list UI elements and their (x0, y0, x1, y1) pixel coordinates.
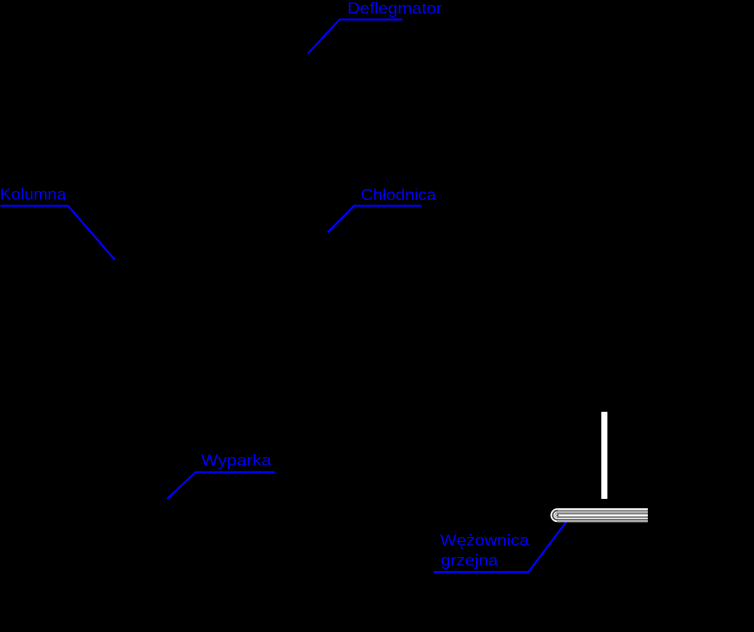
leader line Wyparka (167, 472, 275, 499)
leader line Deflegmator (308, 20, 402, 54)
svg-text:Wężownica: Wężownica (440, 532, 529, 549)
svg-text:Wyparka: Wyparka (201, 453, 271, 470)
leader line Kolumna (1, 206, 115, 260)
coil lower white stripe (557, 517, 648, 519)
coil upper gray stripe (557, 511, 648, 513)
leader line Wezownica grzejna (434, 520, 568, 573)
coil U-bend cap backdrop (551, 508, 557, 522)
thermometer stem (white vertical bar) (601, 412, 607, 499)
svg-text:grzejna: grzejna (441, 553, 498, 570)
coil middle white stripe (559, 514, 648, 516)
heating coil (wezownica grzejna) (551, 508, 648, 522)
leader line Chlodnica (328, 206, 422, 233)
coil U-bend middle arc (554, 512, 557, 518)
svg-text:Deflegmator: Deflegmator (347, 1, 442, 18)
coil body underlay (557, 508, 648, 522)
coil U-bend inner arc (556, 514, 558, 517)
coil top white stripe (557, 508, 648, 510)
svg-text:Kolumna: Kolumna (0, 186, 66, 203)
svg-text:Chłodnica: Chłodnica (361, 187, 436, 204)
coil U-bend outer arc (551, 509, 557, 521)
coil bottom gray stripe (557, 520, 648, 522)
